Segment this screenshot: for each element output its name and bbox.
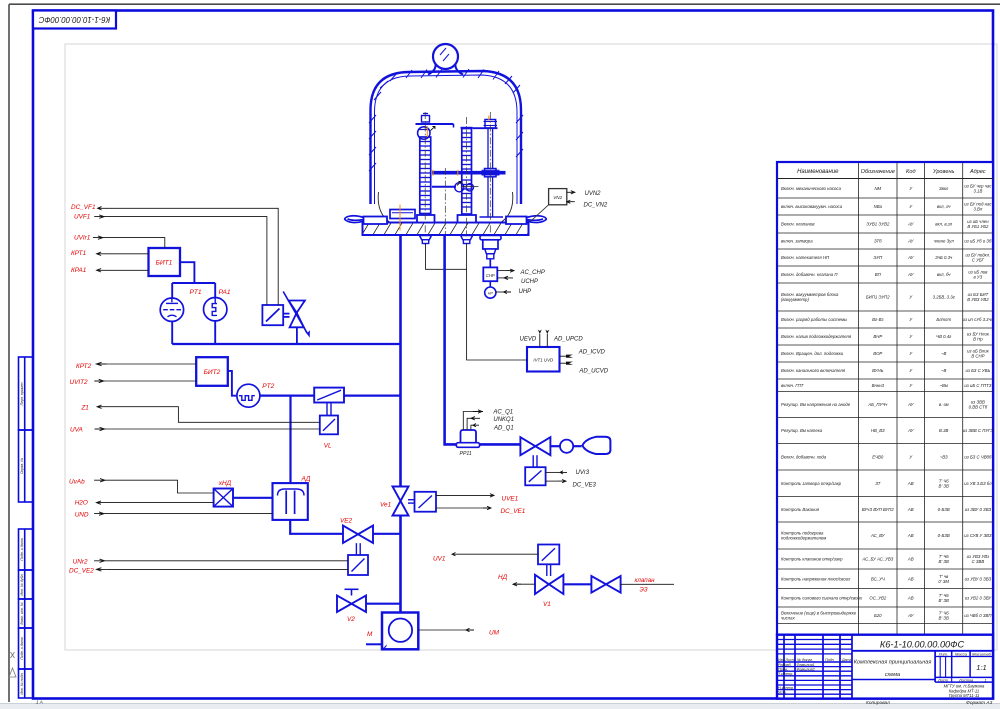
svg-text:Б20: Б20	[874, 613, 882, 618]
svg-text:UNKQ1: UNKQ1	[493, 417, 514, 423]
svg-text:UND: UND	[75, 512, 89, 519]
svg-text:DC_VE3: DC_VE3	[573, 483, 597, 489]
svg-text:Включ. канального включателя: Включ. канального включателя	[781, 368, 846, 373]
svg-text:Включ. натекателя НП: Включ. натекателя НП	[781, 255, 830, 260]
svg-text:В' ЗВ: В' ЗВ	[939, 598, 950, 603]
svg-text:UHP: UHP	[519, 289, 532, 295]
svg-text:NM: NM	[874, 186, 881, 191]
svg-text:члене Зул: члене Зул	[934, 239, 955, 244]
svg-text:в УЗ: в УЗ	[973, 275, 982, 280]
svg-text:PT2: PT2	[262, 383, 274, 390]
svg-text:из ЧВб 0 ЗВП: из ЧВб 0 ЗВП	[964, 613, 992, 618]
svg-text:Ve1: Ve1	[380, 502, 392, 509]
svg-text:UEVD: UEVD	[520, 336, 537, 342]
svg-text:VE2: VE2	[340, 517, 353, 524]
svg-text:Включ. клапанов: Включ. клапанов	[781, 222, 815, 227]
svg-text:из иБ Уб и Зб: из иБ Уб и Зб	[964, 239, 992, 244]
svg-text:AD_Q1: AD_Q1	[493, 426, 514, 432]
svg-text:К6-1-10.00.00.00ФС: К6-1-10.00.00.00ФС	[38, 15, 110, 24]
svg-text:Контроль Вакания: Контроль Вакания	[781, 507, 820, 512]
svg-text:ВП: ВП	[875, 272, 882, 277]
svg-text:В Нр: В Нр	[973, 337, 983, 342]
svg-text:UVr3: UVr3	[576, 470, 590, 476]
svg-text:Фамилия2: Фамилия2	[797, 668, 816, 672]
svg-text:ЭУВ1 ЭУВ2: ЭУВ1 ЭУВ2	[866, 222, 890, 227]
svg-text:из ип сУб 3.3чл: из ип сУб 3.3чл	[963, 317, 994, 322]
svg-text:NВа: NВа	[874, 204, 883, 209]
svg-text:AC_CHP: AC_CHP	[520, 270, 545, 276]
svg-text:ОС_УВ2: ОС_УВ2	[869, 595, 886, 600]
svg-text:~В: ~В	[941, 368, 947, 373]
svg-text:АВ: АВ	[907, 576, 914, 581]
svg-text:UVE1: UVE1	[502, 496, 519, 503]
svg-text:Регулир. Вм натека: Регулир. Вм натека	[781, 428, 823, 433]
svg-text:Фамилия1: Фамилия1	[797, 663, 815, 667]
svg-text:вкл, в,зл: вкл, в,зл	[935, 222, 952, 227]
svg-text:ВОР: ВОР	[873, 351, 882, 356]
svg-text:ЗТб: ЗТб	[874, 239, 882, 244]
svg-text:Включ. Вращен. дол. подложки: Включ. Вращен. дол. подложки	[781, 351, 844, 356]
svg-text:КРА1: КРА1	[71, 267, 87, 274]
svg-text:включ. ГПТ: включ. ГПТ	[781, 383, 804, 388]
svg-text:Звкл: Звкл	[939, 186, 949, 191]
svg-text:Пров.: Пров.	[778, 668, 788, 672]
svg-text:Вг-Вз: Вг-Вз	[872, 317, 883, 322]
svg-text:схема: схема	[885, 672, 900, 678]
svg-text:Подп.: Подп.	[825, 658, 835, 662]
svg-text:DC_VN2: DC_VN2	[584, 202, 608, 208]
svg-text:ВС_УЧ: ВС_УЧ	[871, 576, 885, 581]
svg-text:Регулир. Вм напряжения на анод: Регулир. Вм напряжения на аноде	[781, 402, 851, 407]
svg-text:Контроль напряжения плюс/своих: Контроль напряжения плюс/своих	[781, 576, 851, 581]
svg-text:Включ. добавочн. клапана П: Включ. добавочн. клапана П	[781, 272, 838, 277]
svg-text:Перв. примен.: Перв. примен.	[20, 382, 24, 406]
svg-text:НВ_ВЗ: НВ_ВЗ	[871, 428, 885, 433]
svg-text:Т.контр.: Т.контр.	[778, 672, 793, 676]
svg-text:из УВ 3.БЗ бл: из УВ 3.БЗ бл	[964, 481, 992, 486]
svg-text:IVT1 UVD: IVT1 UVD	[533, 358, 554, 363]
svg-text:АВ: АВ	[907, 507, 914, 512]
svg-text:В УБ1 УБ2: В УБ1 УБ2	[967, 224, 989, 229]
svg-text:В УВЗ УВ2: В УВЗ УВ2	[967, 297, 989, 302]
svg-text:Комплексная принципиальная: Комплексная принципиальная	[854, 660, 932, 666]
svg-text:КРТ1: КРТ1	[71, 250, 87, 257]
svg-text:АС_БУ АС_УВЗ: АС_БУ АС_УВЗ	[861, 557, 893, 562]
svg-text:включ. затвора: включ. затвора	[781, 239, 813, 244]
svg-text:DC_VE2: DC_VE2	[69, 567, 94, 574]
svg-text:из ЗВВ С ПУГЗ: из ЗВВ С ПУГЗ	[963, 428, 994, 433]
svg-text:числах: числах	[781, 615, 796, 620]
svg-text:Подп. и дата: Подп. и дата	[20, 538, 24, 561]
svg-text:Код: Код	[906, 169, 916, 175]
svg-text:Включ. налив подложкодержателя: Включ. налив подложкодержателя	[781, 334, 852, 339]
svg-text:UM: UM	[489, 630, 500, 637]
svg-text:В СНР: В СНР	[971, 354, 984, 359]
svg-text:ВУНЬ: ВУНЬ	[872, 368, 883, 373]
svg-text:UVIT2: UVIT2	[70, 379, 89, 386]
svg-text:НД: НД	[498, 574, 508, 581]
svg-text:включ. высоковакуумн. насоса: включ. высоковакуумн. насоса	[781, 204, 843, 209]
svg-text:3.Вл: 3.Вл	[973, 207, 982, 212]
svg-text:из иБ С ГПТЗ: из иБ С ГПТЗ	[964, 383, 991, 388]
svg-text:Контроль клапанов откр/закр: Контроль клапанов откр/закр	[781, 557, 843, 562]
svg-text:БИТ2: БИТ2	[204, 369, 221, 376]
svg-text:Контроль силового сигнала откр: Контроль силового сигнала откр/своих	[781, 595, 863, 600]
svg-text:Формат А3: Формат А3	[966, 700, 993, 706]
svg-text:UvAb: UvAb	[69, 479, 85, 486]
svg-text:Блтлт: Блтлт	[936, 317, 951, 322]
svg-text:H2O: H2O	[75, 500, 88, 507]
svg-text:АД: АД	[301, 475, 311, 482]
svg-text:АС_ВУ: АС_ВУ	[870, 533, 886, 538]
svg-text:АВ: АВ	[907, 595, 914, 600]
svg-text:Лист: Лист	[785, 658, 795, 662]
svg-text:DC_VF1: DC_VF1	[71, 204, 96, 211]
svg-text:ЭЗ: ЭЗ	[640, 587, 648, 594]
svg-text:AC_Q1: AC_Q1	[492, 410, 513, 416]
svg-text:Утв.: Утв.	[778, 691, 787, 695]
svg-text:АВ: АВ	[907, 557, 914, 562]
svg-text:1:1: 1:1	[976, 663, 986, 672]
svg-text:Взам. инв. №: Взам. инв. №	[20, 602, 24, 624]
svg-text:вкл, бч: вкл, бч	[937, 272, 951, 277]
svg-text:Масштаб: Масштаб	[972, 652, 991, 657]
svg-text:DC_VE1: DC_VE1	[501, 508, 526, 515]
svg-text:Дата: Дата	[841, 658, 851, 662]
svg-text:AD_ICVD: AD_ICVD	[578, 349, 606, 355]
svg-text:из БЗ С УВЬ: из БЗ С УВЬ	[965, 368, 990, 373]
svg-text:АБ_ПУЧч: АБ_ПУЧч	[867, 402, 888, 407]
svg-text:V1: V1	[543, 601, 551, 608]
svg-text:~В: ~В	[941, 351, 947, 356]
svg-text:из УВУ 0 ЗВЗ: из УВУ 0 ЗВЗ	[965, 576, 992, 581]
svg-text:Включ. добавочн. хода: Включ. добавочн. хода	[781, 454, 827, 459]
svg-text:С ЗВВ: С ЗВВ	[972, 559, 985, 564]
svg-text:Справ. №: Справ. №	[20, 458, 24, 474]
svg-text:Инв. № подл.: Инв. № подл.	[20, 672, 24, 694]
svg-text:Включ. механического насоса: Включ. механического насоса	[781, 186, 842, 191]
svg-text:подложкодержателем: подложкодержателем	[781, 536, 826, 541]
svg-text:0.ВВ СТб: 0.ВВ СТб	[969, 405, 988, 410]
svg-text:Лит.: Лит.	[938, 652, 948, 657]
svg-text:PA1: PA1	[219, 289, 231, 296]
svg-text:~Вм: ~Вм	[940, 383, 948, 388]
svg-text:Контроль затвора откр/закр: Контроль затвора откр/закр	[781, 481, 842, 486]
svg-text:UVN2: UVN2	[585, 191, 602, 197]
svg-text:НР: НР	[488, 291, 494, 295]
svg-text:АВ: АВ	[907, 533, 914, 538]
svg-text:К6-1-10.00.00.00ФС: К6-1-10.00.00.00ФС	[880, 640, 965, 650]
svg-text:Включ. разряд работы системы: Включ. разряд работы системы	[781, 317, 848, 322]
svg-text:вкл, лч: вкл, лч	[937, 204, 951, 209]
svg-text:БИП1 ЭУП2: БИП1 ЭУП2	[866, 295, 890, 300]
svg-text:БИТ1: БИТ1	[156, 260, 173, 267]
svg-text:Вннн3: Вннн3	[872, 383, 885, 388]
svg-text:UNr2: UNr2	[73, 558, 88, 565]
svg-text:В' ЗВ: В' ЗВ	[939, 483, 950, 488]
svg-text:AD_UCVD: AD_UCVD	[578, 368, 608, 374]
svg-text:UVF1: UVF1	[74, 214, 91, 221]
svg-text:UVA: UVA	[70, 427, 83, 434]
svg-text:Подп. и дата: Подп. и дата	[20, 637, 24, 660]
svg-text:М: М	[367, 631, 373, 638]
svg-text:В.3В: В.3В	[939, 428, 948, 433]
svg-text:АВ: АВ	[907, 481, 914, 486]
svg-text:1 А: 1 А	[36, 700, 43, 705]
svg-text:ЕЧВ0: ЕЧВ0	[872, 454, 884, 459]
svg-text:В' ЗВ: В' ЗВ	[939, 615, 950, 620]
svg-text:PT1: PT1	[190, 289, 202, 296]
svg-text:клапан: клапан	[635, 577, 656, 584]
svg-text:из СУВ У ЗВЗ: из СУВ У ЗВЗ	[964, 533, 992, 538]
svg-text:VL: VL	[324, 442, 332, 449]
svg-text:ЗчБ 0.3ч: ЗчБ 0.3ч	[935, 255, 953, 260]
svg-text:UVIr1: UVIr1	[74, 234, 91, 241]
svg-text:3.2БВ_3.3г: 3.2БВ_3.3г	[933, 295, 956, 300]
svg-text:0' ЗМ: 0' ЗМ	[938, 579, 949, 584]
svg-text:AD_UPCD: AD_UPCD	[553, 337, 583, 343]
svg-text:Группа МТ11-11: Группа МТ11-11	[949, 693, 980, 698]
svg-text:из БЗ С ЧВбб: из БЗ С ЧВбб	[964, 454, 992, 459]
svg-text:Копировал: Копировал	[866, 700, 890, 706]
svg-text:№ докум.: № докум.	[797, 658, 813, 662]
svg-text:Z1: Z1	[80, 405, 89, 412]
svg-text:UCHP: UCHP	[521, 279, 538, 285]
svg-text:Н.контр.: Н.контр.	[778, 686, 794, 690]
svg-text:~ВЗ: ~ВЗ	[940, 454, 948, 459]
svg-text:V2: V2	[347, 616, 355, 623]
svg-text:хНД: хНД	[218, 480, 232, 487]
svg-text:В' ЗВ: В' ЗВ	[939, 559, 950, 564]
svg-text:Разраб.: Разраб.	[778, 663, 792, 667]
svg-text:ВНР: ВНР	[873, 334, 882, 339]
svg-text:КРТ2: КРТ2	[76, 363, 92, 370]
svg-text:из ЗВУ 0 ЗВЗ: из ЗВУ 0 ЗВЗ	[965, 507, 992, 512]
svg-text:(вакуумметр): (вакуумметр)	[781, 297, 809, 302]
svg-text:0-БЗВ: 0-БЗВ	[938, 507, 950, 512]
svg-text:0-БЗВ: 0-БЗВ	[938, 533, 950, 538]
svg-text:Лист: Лист	[937, 677, 949, 682]
svg-text:UV1: UV1	[433, 555, 446, 562]
svg-text:ВУчЗ ВУП ВУП2: ВУчЗ ВУП ВУП2	[862, 507, 895, 512]
svg-text:СНР: СНР	[486, 273, 495, 278]
svg-text:С УБГ: С УБГ	[972, 258, 985, 263]
svg-text:1: 1	[985, 677, 987, 682]
svg-text:ЧВ 0.4г: ЧВ 0.4г	[936, 334, 952, 339]
svg-text:Инв. № дубл.: Инв. № дубл.	[20, 573, 24, 595]
svg-text:Адрес: Адрес	[969, 169, 986, 175]
svg-text:ЭУП: ЭУП	[873, 255, 883, 260]
svg-text:Масса: Масса	[955, 652, 968, 657]
svg-text:Обозначение: Обозначение	[861, 169, 895, 175]
svg-text:из УВ2 0 ЗВУ: из УВ2 0 ЗВУ	[965, 595, 993, 600]
svg-text:Листов: Листов	[958, 677, 973, 682]
svg-text:VN2: VN2	[553, 195, 562, 200]
svg-text:Уровень: Уровень	[932, 169, 955, 175]
svg-text:РР11: РР11	[460, 451, 472, 457]
svg-text:в.-зм: в.-зм	[939, 402, 949, 407]
svg-text:ЗТ: ЗТ	[875, 481, 880, 486]
svg-text:Наименование: Наименование	[797, 169, 839, 175]
svg-text:3.1В: 3.1В	[973, 188, 982, 193]
